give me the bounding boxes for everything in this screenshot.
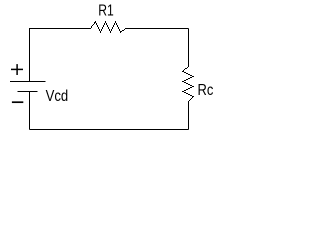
wire right rail lower (Rc to bottom) (188, 102, 190, 130)
wire left rail upper (battery to node A) (29, 29, 31, 82)
battery Vcd positive plate (10, 81, 46, 83)
svg-text:Rc: Rc (198, 82, 214, 100)
battery Vcd negative plate (18, 91, 38, 93)
resistor Rc (182, 66, 194, 102)
resistor R1 (90, 21, 126, 33)
wire top-right (R1 to right rail) (126, 28, 189, 30)
svg-text:R1: R1 (98, 2, 114, 20)
wire bottom (30, 129, 189, 131)
wire top-left (node A to R1) (29, 28, 90, 30)
wire right rail upper (to Rc) (188, 29, 190, 67)
svg-text:Vcd: Vcd (46, 88, 69, 105)
minus terminal mark (12, 101, 23, 103)
plus terminal mark (11, 64, 23, 75)
wire left rail lower (bottom to battery) (29, 92, 31, 130)
